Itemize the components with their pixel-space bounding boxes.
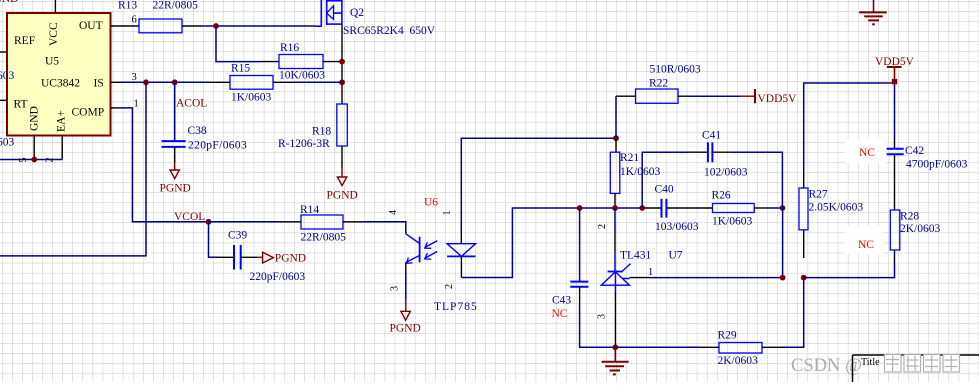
pin 2 (EA+) of U5 xyxy=(45,136,63,163)
svg-text:2.05K/0603: 2.05K/0603 xyxy=(809,202,864,214)
svg-text:1: 1 xyxy=(134,99,139,110)
net label ACOL xyxy=(176,98,207,110)
white watermark patch (upper) xyxy=(845,139,886,163)
ground symbol (top right, clipped) xyxy=(859,0,887,24)
capacitor C42 xyxy=(859,145,968,171)
svg-text:PGND: PGND xyxy=(0,0,18,5)
junction R26/C41 node xyxy=(780,205,786,211)
svg-text:1K/0603: 1K/0603 xyxy=(620,166,661,178)
svg-text:3: 3 xyxy=(597,314,608,319)
svg-text:R13: R13 xyxy=(118,0,137,12)
svg-text:R15: R15 xyxy=(231,63,250,75)
svg-text:220pF/0603: 220pF/0603 xyxy=(250,271,306,283)
wire TL431 anode down to ground row xyxy=(597,285,616,347)
pin 3 wire U5.IS xyxy=(111,72,231,83)
value label 0603 (clipped, left edge upper) xyxy=(0,70,14,82)
junction ref row / R27 xyxy=(801,275,807,281)
svg-text:2: 2 xyxy=(444,284,455,289)
svg-text:PGND: PGND xyxy=(390,323,421,335)
svg-text:IS: IS xyxy=(94,78,104,90)
wire R14 to U6 pin4 xyxy=(343,222,406,234)
wire R29 up to ref row xyxy=(762,278,804,348)
resistor R29 xyxy=(718,330,763,368)
junction divider row / C43 xyxy=(577,205,583,211)
junction at OUT node xyxy=(213,23,219,29)
svg-text:C43: C43 xyxy=(552,295,571,307)
svg-text:TL431: TL431 xyxy=(620,250,652,262)
wire Q2 source down to R18 xyxy=(341,24,343,104)
wire R22 to VDD5V port xyxy=(678,95,755,97)
wire ground row to R29 xyxy=(615,346,719,348)
resistor R16 xyxy=(279,42,325,82)
resistor R13 xyxy=(118,0,198,33)
svg-text:C38: C38 xyxy=(188,125,207,137)
svg-text:GND: GND xyxy=(29,106,41,131)
svg-text:/0603: /0603 xyxy=(0,70,14,82)
svg-text:VCOL: VCOL xyxy=(174,211,205,223)
wire IS node A down and left to edge xyxy=(0,82,146,256)
svg-text:C41: C41 xyxy=(702,130,721,142)
shunt reference U7 TL431 xyxy=(601,250,683,286)
wire TL431 cathode from divider row xyxy=(614,208,616,272)
pin 1 wire TL431 ref to row xyxy=(630,267,783,278)
optocoupler U6 TLP785 xyxy=(388,197,478,314)
svg-text:R18: R18 xyxy=(312,126,331,138)
wire VDD5V node down to C42 xyxy=(894,84,896,149)
svg-text:4700pF/0603: 4700pF/0603 xyxy=(906,159,968,171)
wire C41 branch right xyxy=(712,152,782,208)
resistor R26 xyxy=(712,190,755,228)
wire VCOL node down to C39 xyxy=(209,222,235,257)
svg-text:4: 4 xyxy=(388,210,399,215)
wire R15 to Q2 source xyxy=(273,81,342,83)
svg-text:U7: U7 xyxy=(669,250,683,262)
svg-text:C40: C40 xyxy=(655,184,674,196)
wire divider row xyxy=(580,207,713,209)
svg-text:RT: RT xyxy=(14,99,28,111)
pin 2 label TL431 xyxy=(597,224,608,229)
junction divider row / TL431 xyxy=(612,205,618,211)
svg-text:NC: NC xyxy=(552,308,568,320)
capacitor C40 xyxy=(655,184,699,234)
svg-text:R21: R21 xyxy=(620,152,639,164)
ground symbol (bottom) xyxy=(602,347,629,374)
pin REF stub of U5 xyxy=(0,51,7,53)
wire divider row down to C43 xyxy=(579,208,581,282)
junction R16/Q2 xyxy=(339,59,345,65)
junction R15/Q2 xyxy=(339,79,345,85)
svg-text:22R/0805: 22R/0805 xyxy=(153,0,199,12)
svg-text:C39: C39 xyxy=(228,230,247,242)
wire R16 to Q2 source xyxy=(323,61,342,63)
junction feedback node xyxy=(613,135,619,141)
wire GND/EA+ to left edge xyxy=(0,159,62,161)
svg-text:R27: R27 xyxy=(809,189,828,201)
pin RT stub of U5 xyxy=(0,99,7,101)
svg-text:R16: R16 xyxy=(280,42,299,54)
wire OUT node to Q2 gate xyxy=(216,25,315,27)
svg-text:REF: REF xyxy=(14,35,35,47)
power symbol PGND (below C38) xyxy=(160,170,191,195)
resistor R27 xyxy=(799,168,863,258)
svg-text:Q2: Q2 xyxy=(350,7,364,19)
svg-text:1: 1 xyxy=(648,267,653,278)
wire C42 to R28 xyxy=(894,154,896,210)
transistor Q2 (MOSFET, clipped at top) xyxy=(315,0,436,37)
svg-text:R29: R29 xyxy=(718,330,737,342)
resistor R18 xyxy=(278,104,347,150)
svg-text:103/0603: 103/0603 xyxy=(655,221,699,233)
junction IS node A xyxy=(143,79,149,85)
white watermark patch (lower) xyxy=(845,226,883,254)
svg-text:PGND: PGND xyxy=(275,253,306,265)
svg-text:1K/0603: 1K/0603 xyxy=(712,216,753,228)
svg-text:10K/0603: 10K/0603 xyxy=(279,70,325,82)
svg-text:ACOL: ACOL xyxy=(176,98,207,110)
svg-text:PGND: PGND xyxy=(327,190,358,202)
wire R18 to PGND xyxy=(341,146,343,177)
watermark hanzi glyphs xyxy=(885,355,960,373)
junction IS node B xyxy=(172,79,178,85)
watermark CSDN xyxy=(791,356,862,376)
svg-text:3: 3 xyxy=(132,72,137,83)
wire R26 to C41 node xyxy=(754,207,782,209)
svg-text:2K/0603: 2K/0603 xyxy=(900,223,941,235)
resistor R21 xyxy=(610,138,660,208)
op-amp U5 body (UC3842 controller) xyxy=(7,13,111,136)
title block label Title xyxy=(861,357,880,368)
wire U6 pin2 to divider row xyxy=(461,208,579,278)
svg-text:VCC: VCC xyxy=(48,22,60,46)
svg-text:Title: Title xyxy=(861,357,880,368)
svg-text:1K/0603: 1K/0603 xyxy=(231,92,272,104)
wire C41 node down to ref row xyxy=(782,208,784,278)
junction ground row xyxy=(612,344,618,350)
svg-text:3: 3 xyxy=(390,286,401,291)
svg-text:R28: R28 xyxy=(900,211,919,223)
svg-text:UC3842: UC3842 xyxy=(41,78,80,90)
svg-text:2: 2 xyxy=(597,224,608,229)
svg-text:1: 1 xyxy=(442,211,453,216)
wire VCOL node to R14 xyxy=(209,221,302,223)
resistor R14 xyxy=(300,204,346,244)
wire C43 down to ground row xyxy=(580,287,616,348)
title block border xyxy=(853,355,979,382)
wire IS node B down to C38 xyxy=(174,82,176,141)
pin 6 wire U5.OUT to R13 xyxy=(111,15,140,27)
junction ref row / C41 branch xyxy=(780,275,786,281)
wire U6 pin1 up to feedback node xyxy=(461,138,616,244)
svg-text:EA+: EA+ xyxy=(56,110,68,132)
svg-text:CSDN @: CSDN @ xyxy=(791,356,862,376)
wire C41 branch left xyxy=(642,152,708,208)
svg-text:R14: R14 xyxy=(300,204,319,216)
resistor R15 xyxy=(230,63,273,104)
wire OUT node down to R16 xyxy=(216,26,279,62)
svg-text:VDD5V: VDD5V xyxy=(875,56,915,68)
svg-text:R26: R26 xyxy=(712,190,731,202)
svg-text:2K/0603: 2K/0603 xyxy=(718,355,759,367)
junction divider row / C41 branch xyxy=(639,205,645,211)
net label VCOL xyxy=(174,211,205,223)
svg-text:U5: U5 xyxy=(45,56,59,68)
svg-text:/0603: /0603 xyxy=(0,137,14,149)
wire feedback node up to R22 xyxy=(616,96,636,138)
svg-text:220pF/0603: 220pF/0603 xyxy=(188,140,247,152)
wire R13 to OUT node xyxy=(182,25,216,27)
pin 1 wire U5.COMP down to VCOL row xyxy=(111,99,209,222)
port PGND (right of C39) xyxy=(241,252,306,264)
svg-text:PGND: PGND xyxy=(160,183,191,195)
value label 0603 (clipped, left edge lower) xyxy=(0,137,14,149)
wire U6 pin3 to PGND xyxy=(405,263,407,312)
svg-text:22R/0805: 22R/0805 xyxy=(301,232,347,244)
svg-text:NC: NC xyxy=(858,239,874,251)
power port VDD5V (right of R22) xyxy=(755,89,797,105)
svg-text:102/0603: 102/0603 xyxy=(704,167,748,179)
svg-text:6: 6 xyxy=(132,15,137,26)
resistor R28 xyxy=(858,210,941,251)
power symbol PGND (below U6) xyxy=(390,311,421,334)
pin 5 (GND) of U5 xyxy=(18,136,34,163)
capacitor C38 xyxy=(162,125,248,152)
capacitor C39 xyxy=(228,230,305,284)
svg-text:OUT: OUT xyxy=(79,20,103,32)
svg-text:TLP785: TLP785 xyxy=(434,301,478,313)
svg-text:C42: C42 xyxy=(905,145,924,157)
svg-text:R-1206-3R: R-1206-3R xyxy=(278,138,330,150)
wire C38 to PGND xyxy=(174,147,176,170)
svg-text:COMP: COMP xyxy=(72,107,105,119)
svg-text:VDD5V: VDD5V xyxy=(758,93,798,105)
svg-text:U6: U6 xyxy=(424,197,438,209)
pin 8 (VCC) of U5 xyxy=(54,0,56,13)
svg-text:510R/0603: 510R/0603 xyxy=(650,64,701,76)
wire R28 down to ref row xyxy=(804,250,895,278)
junction VCOL node xyxy=(206,219,212,225)
junction at GND pin xyxy=(31,157,37,163)
net label GND (clipped at top-left) xyxy=(0,0,18,5)
power port VDD5V (top right) xyxy=(875,56,915,84)
capacitor C43 xyxy=(552,282,589,320)
svg-text:SRC65R2K4 650V: SRC65R2K4 650V xyxy=(343,25,436,37)
svg-text:NC: NC xyxy=(859,147,875,159)
resistor R22 xyxy=(636,64,701,104)
wire R27 up to VDD5V node xyxy=(804,83,890,168)
power symbol PGND (below R18) xyxy=(327,177,358,202)
capacitor C41 xyxy=(702,130,748,179)
svg-text:R22: R22 xyxy=(649,78,668,90)
